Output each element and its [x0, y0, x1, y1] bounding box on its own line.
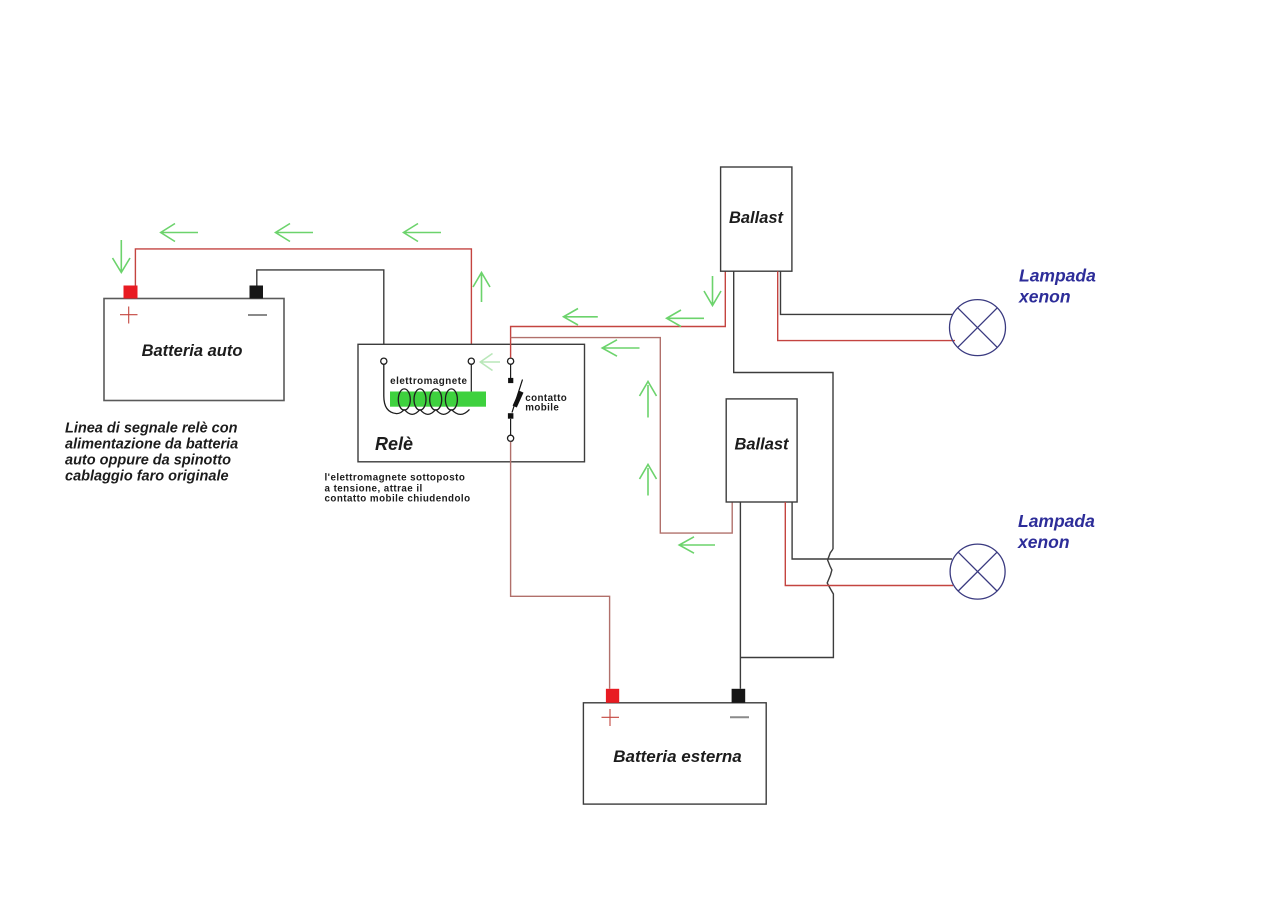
svg-text:Relè: Relè	[375, 434, 413, 454]
wire red: battery B1 + up, across top, down to relay pin 2	[135, 249, 471, 358]
green arrow up beside relay pin 2 wire	[473, 273, 490, 303]
svg-text:mobile: mobile	[525, 403, 559, 414]
svg-text:xenon: xenon	[1017, 532, 1070, 552]
wire break jog over lamp wires	[827, 549, 833, 599]
svg-text:contatto mobile chiudendolo: contatto mobile chiudendolo	[325, 494, 471, 505]
wire red dull: relay pin 4 down to external battery +	[511, 442, 610, 689]
svg-text:cablaggio faro originale: cablaggio faro originale	[65, 469, 229, 485]
wire black continue down to bottom junction	[740, 599, 833, 658]
svg-text:elettromagnete: elettromagnete	[390, 376, 467, 387]
lamp 1 symbol (circle with X)	[950, 300, 1006, 356]
wire black: ballast2 down to junction and battery -	[739, 502, 741, 689]
battery B1 plus sign	[120, 307, 138, 324]
switch contact dot bottom	[508, 413, 514, 419]
battery B1 negative terminal	[250, 286, 264, 299]
switch lead to pin 4	[510, 419, 512, 435]
relay pin 3	[508, 358, 514, 364]
battery B2 negative terminal	[732, 689, 746, 703]
wire red dull: node at pin3 riser to ballast2	[511, 338, 733, 533]
battery B2 minus sign	[730, 716, 749, 718]
svg-text:auto oppure da spinotto: auto oppure da spinotto	[65, 453, 231, 469]
svg-text:Batteria esterna: Batteria esterna	[613, 747, 742, 766]
battery B1 minus sign	[248, 314, 267, 316]
wire red: ballast1 to lamp 1	[778, 271, 955, 340]
switch contact dot top	[508, 378, 513, 383]
green arrow up on dull red riser (1)	[640, 382, 657, 418]
battery B2 positive terminal	[606, 689, 619, 703]
svg-text:Linea di segnale relè con: Linea di segnale relè con	[65, 421, 238, 437]
wire black: battery B1 - up, across, down to relay pin 1	[257, 270, 384, 358]
pale green arrow left at relay pin 3 to pin 2	[480, 354, 500, 371]
battery B1 box (Batteria auto)	[104, 299, 284, 401]
relay coil winding loops	[398, 389, 457, 410]
ballast 1 box	[721, 167, 792, 271]
relay coil right lead to pin 2	[470, 365, 472, 392]
svg-text:Ballast: Ballast	[734, 436, 790, 454]
wire red: ballast1 to relay pin 3	[511, 271, 726, 358]
green arrow left below dull red wire	[602, 340, 639, 356]
green arrow down beside ballast1 red wire	[704, 276, 721, 306]
battery B2 box (Batteria esterna)	[583, 703, 766, 804]
svg-text:xenon: xenon	[1018, 287, 1071, 307]
svg-text:Lampada: Lampada	[1018, 511, 1095, 531]
green arrow left above red wire (to pin3) 2	[667, 310, 704, 327]
relay pin 2	[468, 358, 474, 364]
green arrow down at battery B1 +	[113, 240, 131, 273]
battery B1 positive terminal	[124, 286, 138, 299]
wire black: ballast2 to lamp 2	[792, 502, 952, 559]
wire black: ballast1 to lamp 1	[781, 271, 954, 314]
green arrow left on top wire (1)	[161, 224, 198, 242]
lamp 2 symbol (circle with X)	[950, 544, 1005, 599]
green arrow left above red wire (to pin3) 1	[564, 309, 598, 326]
green arrow up on dull red riser (2)	[640, 465, 657, 496]
svg-text:Batteria auto: Batteria auto	[142, 342, 243, 360]
relay pin 4	[508, 435, 514, 441]
battery B2 plus sign	[602, 709, 620, 726]
svg-text:Ballast: Ballast	[729, 209, 785, 227]
wire black: ballast1 to external battery - (with crossover break)	[734, 271, 833, 549]
green arrow left below dull red horizontal (bottom)	[679, 537, 715, 553]
relay coil green body	[390, 392, 486, 407]
svg-text:Lampada: Lampada	[1019, 266, 1096, 286]
ballast 2 box	[726, 399, 797, 502]
green arrow left on top wire (2)	[276, 224, 314, 242]
svg-text:l'elettromagnete sottoposto: l'elettromagnete sottoposto	[325, 473, 466, 484]
green arrow left on top wire (3)	[404, 224, 442, 242]
relay coil under-arcs	[384, 365, 470, 415]
wire red: ballast2 to lamp 2	[785, 502, 953, 586]
switch blade (contatto mobile)	[512, 380, 523, 413]
switch fixed contact lead top	[510, 364, 512, 378]
relay K1 box	[358, 344, 585, 462]
relay pin 1	[381, 358, 387, 364]
svg-text:alimentazione da batteria: alimentazione da batteria	[65, 437, 238, 453]
